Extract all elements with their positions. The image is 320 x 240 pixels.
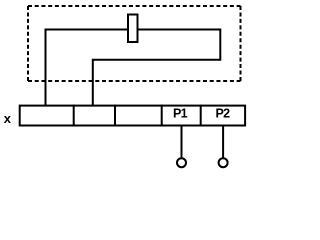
- terminal block outline x: [20, 106, 245, 126]
- terminal circle below P1: [177, 158, 186, 167]
- svg-text:P1: P1: [173, 106, 188, 120]
- terminal block divider 2: [114, 105, 116, 127]
- component (link/fuse) rectangle on top wire: [128, 15, 138, 43]
- svg-text:x: x: [4, 111, 12, 126]
- terminal block divider 3: [161, 105, 163, 127]
- dashed enclosure box: left edge: [27, 6, 29, 81]
- svg-text:P2: P2: [216, 106, 231, 120]
- dashed enclosure box: top edge: [28, 5, 241, 7]
- wire: stub below P2: [222, 126, 224, 158]
- wire: series link from terminal 1 through component to terminal 2: [46, 30, 221, 107]
- dashed enclosure box: bottom edge: [28, 80, 241, 82]
- terminal block divider 4: [200, 105, 202, 127]
- terminal circle below P2: [219, 158, 228, 167]
- wire: stub below P1: [181, 126, 183, 158]
- dashed enclosure box: right edge: [240, 6, 242, 81]
- terminal block divider 1: [73, 105, 75, 127]
